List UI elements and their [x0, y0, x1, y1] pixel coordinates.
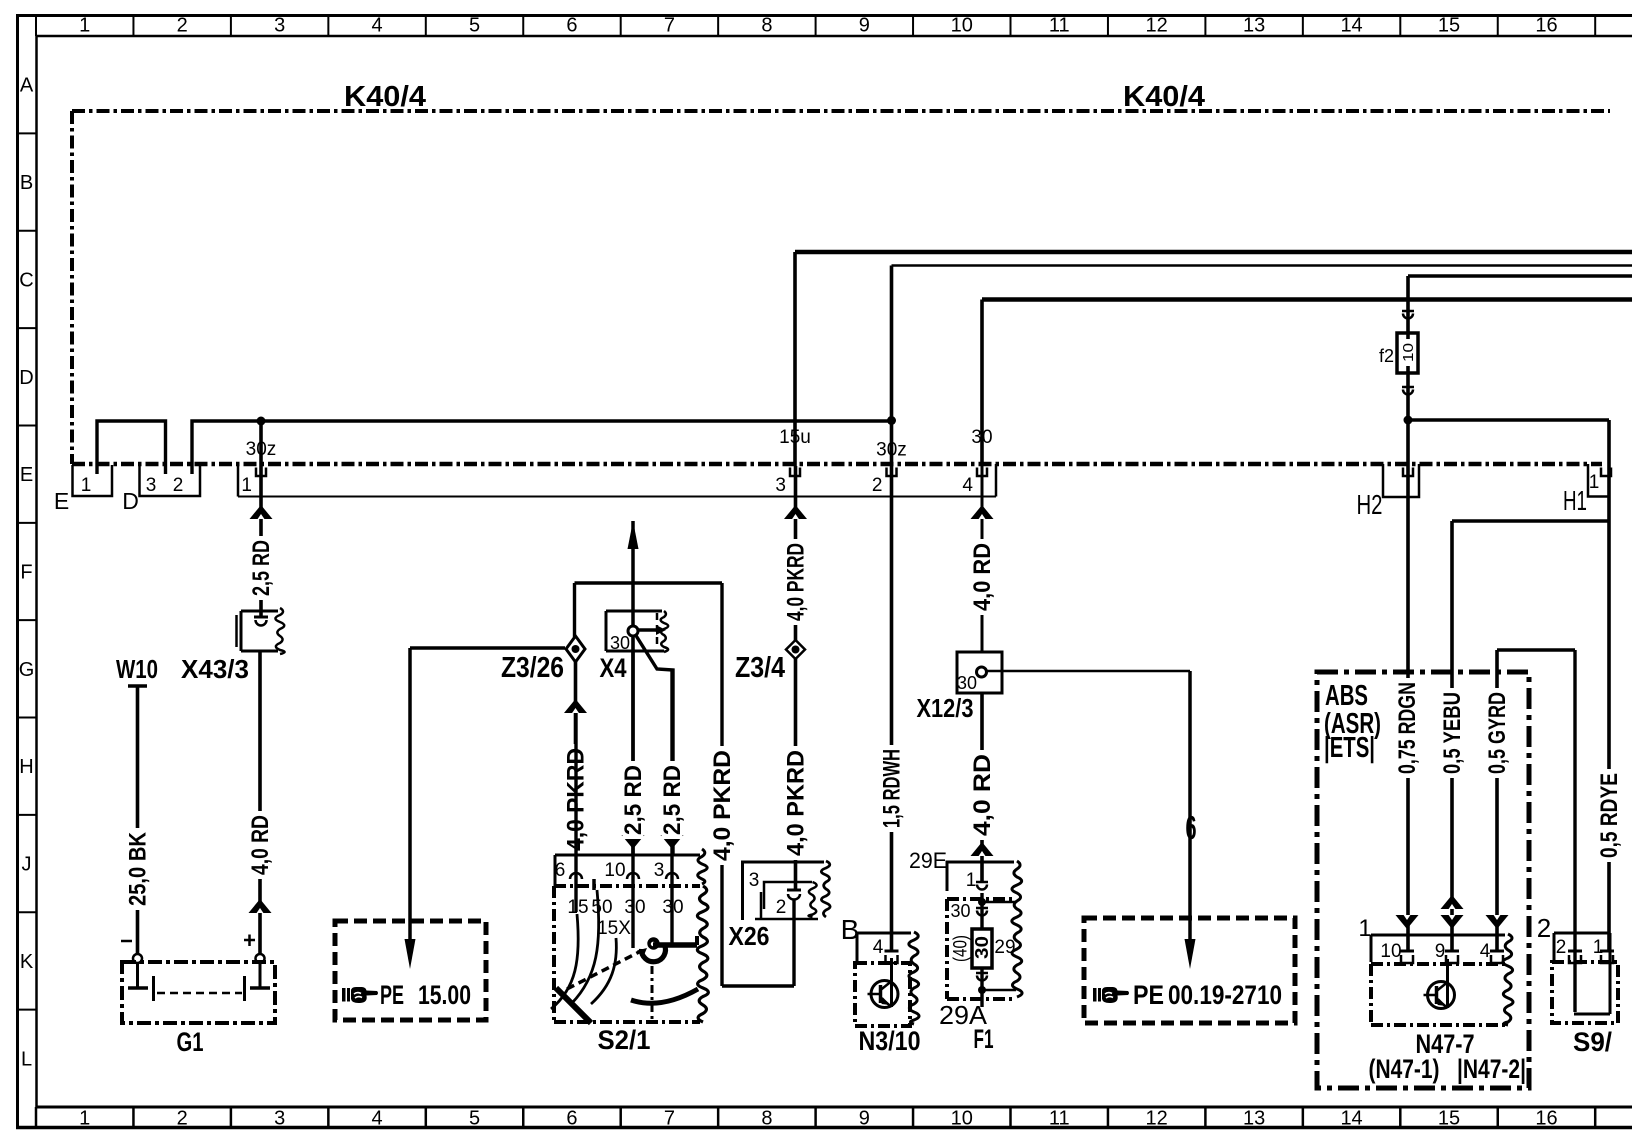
svg-text:30: 30 — [957, 673, 977, 693]
svg-text:1: 1 — [79, 1108, 90, 1130]
svg-text:9: 9 — [859, 1108, 870, 1130]
svg-text:4: 4 — [372, 1108, 383, 1130]
svg-text:13: 13 — [1243, 15, 1265, 37]
svg-text:G: G — [19, 659, 35, 681]
svg-text:W10: W10 — [116, 654, 158, 684]
svg-text:3: 3 — [775, 475, 786, 496]
svg-text:1: 1 — [81, 475, 92, 496]
svg-text:3: 3 — [749, 870, 760, 891]
svg-text:4: 4 — [873, 937, 884, 958]
svg-text:N3/10: N3/10 — [859, 1026, 921, 1056]
svg-text:15X: 15X — [597, 918, 631, 939]
svg-text:A: A — [20, 75, 34, 97]
svg-text:1: 1 — [79, 15, 90, 37]
svg-text:4,0 RD: 4,0 RD — [969, 754, 996, 836]
svg-text:2: 2 — [1537, 913, 1551, 943]
svg-text:4,0 PKRD: 4,0 PKRD — [782, 750, 809, 856]
svg-text:30: 30 — [624, 897, 645, 918]
svg-text:0,5 YEBU: 0,5 YEBU — [1439, 692, 1466, 774]
svg-text:X43/3: X43/3 — [181, 654, 249, 684]
svg-text:3: 3 — [146, 475, 157, 496]
svg-text:H1: H1 — [1563, 485, 1587, 516]
svg-text:14: 14 — [1340, 15, 1362, 37]
svg-text:E: E — [20, 464, 33, 486]
svg-text:11: 11 — [1049, 1108, 1070, 1130]
svg-text:K40/4: K40/4 — [1123, 81, 1205, 113]
svg-text:2: 2 — [177, 1108, 188, 1130]
svg-text:10: 10 — [604, 860, 625, 881]
svg-text:4,0 PKRD: 4,0 PKRD — [709, 750, 736, 861]
svg-text:10: 10 — [951, 1108, 973, 1130]
svg-text:PE: PE — [1133, 980, 1164, 1010]
svg-text:3: 3 — [654, 860, 665, 881]
svg-text:4: 4 — [372, 15, 383, 37]
svg-text:13: 13 — [1243, 1108, 1265, 1130]
svg-text:50: 50 — [591, 897, 612, 918]
svg-text:5: 5 — [469, 15, 480, 37]
svg-text:1: 1 — [1593, 937, 1604, 958]
svg-text:15.00: 15.00 — [418, 980, 471, 1010]
svg-text:S2/1: S2/1 — [598, 1025, 651, 1055]
svg-text:J: J — [22, 854, 32, 876]
svg-text:S9/: S9/ — [1573, 1027, 1612, 1057]
svg-text:0,5 GYRD: 0,5 GYRD — [1484, 692, 1511, 774]
svg-text:4: 4 — [962, 475, 973, 496]
svg-text:30: 30 — [972, 936, 992, 959]
svg-text:X12/3: X12/3 — [917, 693, 974, 723]
svg-text:4,0 RD: 4,0 RD — [247, 815, 274, 875]
svg-text:6: 6 — [555, 860, 566, 881]
svg-text:1,5 RDWH: 1,5 RDWH — [878, 749, 905, 828]
svg-text:Z3/4: Z3/4 — [735, 652, 785, 684]
svg-text:4,0 RD: 4,0 RD — [969, 543, 996, 611]
svg-text:H: H — [19, 756, 33, 778]
svg-text:1: 1 — [1589, 472, 1600, 493]
svg-text:6: 6 — [1186, 809, 1197, 846]
svg-text:(N47-1): (N47-1) — [1369, 1054, 1440, 1084]
svg-text:E: E — [54, 488, 69, 514]
svg-text:D: D — [19, 367, 33, 389]
svg-text:G1: G1 — [177, 1027, 204, 1057]
svg-text:30: 30 — [662, 897, 683, 918]
svg-text:29: 29 — [994, 937, 1015, 958]
svg-text:12: 12 — [1146, 15, 1168, 37]
svg-text:4: 4 — [1480, 941, 1491, 962]
svg-text:Z3/26: Z3/26 — [501, 652, 564, 684]
svg-text:F: F — [20, 562, 32, 584]
svg-text:15: 15 — [1438, 1108, 1460, 1130]
svg-text:15: 15 — [1438, 15, 1460, 37]
svg-text:2,5 RD: 2,5 RD — [248, 540, 275, 596]
svg-text:|N47-2|: |N47-2| — [1457, 1054, 1526, 1084]
svg-text:12: 12 — [1146, 1108, 1168, 1130]
svg-text:5: 5 — [469, 1108, 480, 1130]
svg-text:B: B — [20, 172, 33, 194]
svg-text:3: 3 — [274, 15, 285, 37]
svg-text:1: 1 — [966, 870, 977, 891]
svg-text:30: 30 — [610, 633, 630, 653]
svg-text:1: 1 — [241, 475, 252, 496]
svg-text:7: 7 — [664, 15, 675, 37]
svg-text:K: K — [20, 951, 34, 973]
svg-text:7: 7 — [664, 1108, 675, 1130]
svg-text:K40/4: K40/4 — [344, 81, 426, 113]
svg-text:H2: H2 — [1357, 489, 1383, 520]
svg-text:00.19-2710: 00.19-2710 — [1168, 980, 1282, 1010]
svg-text:2: 2 — [173, 475, 184, 496]
svg-text:9: 9 — [1435, 941, 1446, 962]
svg-text:8: 8 — [761, 15, 772, 37]
svg-text:X26: X26 — [729, 921, 770, 951]
svg-text:16: 16 — [1535, 1108, 1557, 1130]
svg-text:6: 6 — [566, 15, 577, 37]
svg-text:(40): (40) — [950, 935, 971, 962]
svg-text:29E: 29E — [909, 848, 947, 873]
svg-text:2: 2 — [872, 475, 883, 496]
svg-text:|ETS|: |ETS| — [1324, 732, 1375, 764]
svg-text:2: 2 — [776, 897, 787, 918]
svg-text:10: 10 — [1400, 343, 1417, 362]
svg-text:PE: PE — [380, 980, 404, 1010]
svg-text:3: 3 — [274, 1108, 285, 1130]
svg-text:25,0 BK: 25,0 BK — [124, 831, 151, 906]
svg-text:f2: f2 — [1379, 346, 1394, 366]
svg-text:0,5 RDYE: 0,5 RDYE — [1596, 773, 1623, 858]
svg-text:X4: X4 — [600, 653, 627, 683]
svg-text:4,0 PKRD: 4,0 PKRD — [782, 543, 809, 621]
svg-text:0,75 RDGN: 0,75 RDGN — [1394, 682, 1421, 774]
svg-text:F1: F1 — [974, 1024, 994, 1054]
svg-text:2,5 RD: 2,5 RD — [659, 765, 686, 835]
svg-text:L: L — [21, 1048, 32, 1070]
svg-text:10: 10 — [1380, 941, 1401, 962]
svg-text:30: 30 — [950, 901, 970, 921]
svg-text:16: 16 — [1535, 15, 1557, 37]
svg-text:8: 8 — [761, 1108, 772, 1130]
svg-text:2: 2 — [177, 15, 188, 37]
svg-text:9: 9 — [859, 15, 870, 37]
svg-text:6: 6 — [566, 1108, 577, 1130]
svg-text:11: 11 — [1049, 15, 1070, 37]
svg-text:10: 10 — [951, 15, 973, 37]
svg-text:D: D — [122, 488, 139, 514]
svg-text:2: 2 — [1556, 937, 1567, 958]
svg-text:2,5 RD: 2,5 RD — [620, 765, 647, 835]
svg-text:C: C — [19, 269, 33, 291]
svg-text:14: 14 — [1340, 1108, 1362, 1130]
